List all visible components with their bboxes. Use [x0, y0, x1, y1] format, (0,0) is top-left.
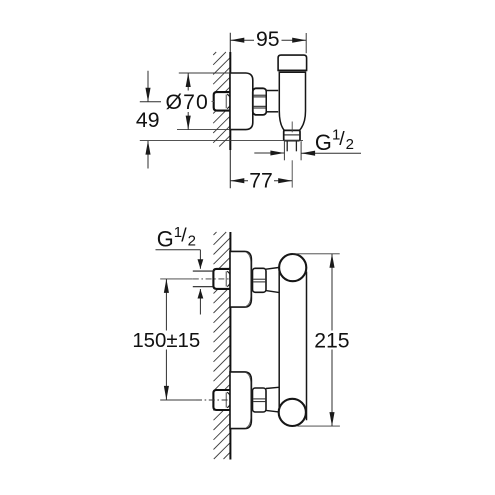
svg-text:/: /	[181, 225, 187, 247]
svg-text:G: G	[315, 130, 332, 155]
top escutcheon flange	[230, 251, 251, 307]
bottom inlet sleeve bulge	[227, 392, 231, 407]
dimension 77	[230, 169, 292, 192]
svg-text:Ø70: Ø70	[166, 91, 209, 114]
wall hatching (side view)	[213, 52, 230, 147]
svg-text:95: 95	[256, 28, 280, 51]
inlet connector (side view)	[266, 91, 278, 112]
dimension 49	[136, 71, 303, 169]
escutcheon flange (side view)	[230, 73, 253, 130]
top inlet sleeve bulge	[227, 271, 231, 286]
center line top inlet	[160, 278, 230, 280]
outlet center line	[291, 122, 293, 133]
outlet nut (side view)	[284, 130, 300, 140]
svg-text:2: 2	[188, 233, 196, 250]
inlet sleeve bulge (side view)	[227, 94, 231, 108]
svg-text:G: G	[157, 227, 174, 252]
top inlet square union	[213, 269, 230, 289]
dimension G 1/2 (inlet thread, front view)	[156, 224, 204, 315]
inlet sleeve front edge	[225, 95, 227, 109]
top connector	[266, 267, 279, 292]
dimension G 1/2 (outlet thread, side view)	[254, 127, 361, 161]
top body boss (circle)	[279, 254, 306, 281]
wall face line (side view)	[229, 33, 231, 189]
dimension diameter 70	[164, 73, 230, 130]
svg-text:/: /	[339, 128, 345, 150]
dimension 95 (top)	[230, 28, 306, 53]
bottom inlet square union	[213, 390, 230, 410]
wall face line (front view)	[229, 232, 231, 460]
svg-text:150±15: 150±15	[132, 330, 200, 352]
bottom body boss (circle)	[279, 399, 306, 426]
bottom inlet sleeve front edge	[225, 392, 227, 407]
inlet center dash	[210, 100, 214, 102]
dimension 150 plus/minus 15	[132, 279, 200, 400]
top hex nut (front view)	[253, 268, 267, 292]
svg-text:215: 215	[314, 329, 349, 352]
bottom escutcheon flange	[230, 372, 251, 429]
svg-text:2: 2	[346, 136, 354, 153]
wall hatching (front view)	[214, 232, 231, 459]
valve body (side view)	[278, 55, 307, 130]
svg-text:49: 49	[136, 109, 160, 132]
bottom hex nut (front view)	[253, 388, 267, 412]
dimension 215	[293, 254, 351, 426]
bottom connector	[266, 387, 279, 412]
svg-text:77: 77	[249, 169, 273, 192]
mixer bar body (front view)	[279, 268, 306, 421]
inlet square union (side view)	[214, 92, 231, 111]
supply pipe stub	[193, 271, 214, 287]
hex coupling nut (side view)	[253, 88, 267, 115]
outlet pipe stub	[287, 141, 296, 152]
center line bottom inlet	[160, 399, 230, 401]
top inlet sleeve front edge	[225, 271, 227, 286]
